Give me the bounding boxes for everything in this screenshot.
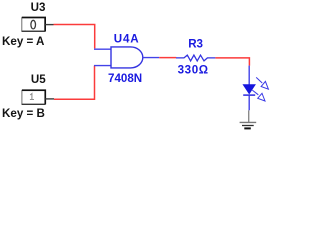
wire R3 to LED anode <box>215 58 249 66</box>
svg-text:330Ω: 330Ω <box>178 64 209 77</box>
svg-text:U4A: U4A <box>114 33 140 46</box>
and-gate U4A body <box>111 47 143 68</box>
LED D1 light arrow 2 <box>252 90 265 101</box>
wire LED to ground <box>248 110 250 122</box>
svg-text:U5: U5 <box>31 73 46 86</box>
LED D1 anode lead <box>248 66 250 85</box>
resistor R3 body <box>176 55 215 61</box>
wire U5 to gate input 2 <box>54 66 95 100</box>
LED D1 triangle <box>243 85 255 94</box>
svg-text:U3: U3 <box>31 1 46 14</box>
svg-text:Key = B: Key = B <box>2 107 45 120</box>
LED D1 light arrow 1 <box>256 77 268 89</box>
svg-text:R3: R3 <box>188 38 203 51</box>
and-gate U4A output stub <box>143 57 160 59</box>
switch U3 pin stub <box>45 24 53 26</box>
wire U3 to gate input 1 <box>54 25 95 49</box>
switch U5 body <box>22 90 46 104</box>
svg-text:Key = A: Key = A <box>2 35 45 48</box>
and-gate U4A input stub 1 <box>94 48 111 50</box>
switch U3 body <box>22 17 46 31</box>
svg-text:7408N: 7408N <box>108 72 142 85</box>
switch U5 state value 1 <box>30 94 34 100</box>
LED D1 cathode bar <box>243 94 255 96</box>
switch U3 state value 0 <box>31 20 36 29</box>
wire gate output to R3 <box>159 57 176 59</box>
switch U5 pin stub <box>45 98 54 100</box>
ground symbol <box>240 122 257 128</box>
and-gate U4A input stub 2 <box>94 65 111 67</box>
LED D1 cathode lead <box>248 96 250 111</box>
